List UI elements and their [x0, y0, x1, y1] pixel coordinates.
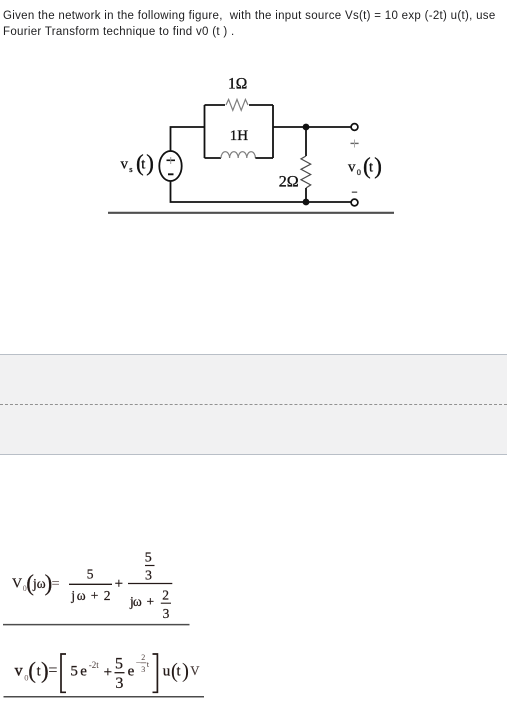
- formula 1: V0(jw) = 5/(jw+2) + (5/3)/(jw+2/3): [12, 551, 172, 621]
- left bracket: [61, 654, 66, 692]
- svg-text:3: 3: [141, 665, 145, 674]
- output terminal bottom: [351, 199, 358, 206]
- source plus sign: [167, 159, 176, 161]
- svg-text:V: V: [12, 577, 22, 592]
- question text: [3, 9, 503, 40]
- svg-text:5: 5: [115, 656, 123, 673]
- svg-text:t: t: [177, 664, 181, 680]
- inductor L1 1H coil: [221, 152, 255, 158]
- svg-text:+: +: [115, 576, 123, 592]
- source minus sign: [168, 173, 174, 175]
- right bracket: [153, 654, 158, 692]
- wire: 2ohm resistor top lead: [305, 127, 307, 156]
- label vs(t): [121, 151, 154, 176]
- svg-text:V: V: [190, 664, 199, 678]
- wire: box bottom branch left segment: [205, 157, 222, 159]
- svg-text:v: v: [15, 663, 23, 680]
- svg-text:ω: ω: [77, 588, 86, 603]
- svg-text:3: 3: [115, 675, 123, 692]
- wire: main line right to output terminal: [273, 126, 351, 128]
- label v0(t): [348, 154, 382, 179]
- svg-text:5: 5: [70, 664, 78, 680]
- svg-text:t: t: [147, 659, 150, 669]
- figure underline: [108, 212, 394, 214]
- svg-text:3: 3: [163, 606, 170, 621]
- svg-text:-2t: -2t: [89, 660, 99, 670]
- underline 2: [4, 696, 205, 698]
- voltage source Vs circle: [159, 151, 181, 181]
- wire: main top line from source to parallel box: [171, 127, 205, 151]
- svg-text:e: e: [80, 664, 87, 680]
- svg-text:ω: ω: [133, 594, 142, 609]
- circuit figure: [0, 0, 507, 230]
- wire: 2ohm resistor bottom lead: [305, 188, 307, 202]
- svg-text:−: −: [136, 658, 141, 668]
- svg-text:5: 5: [145, 551, 152, 566]
- output terminal top: [351, 124, 358, 131]
- wire: parallel box left vertical: [204, 105, 206, 158]
- svg-text:(: (: [28, 658, 36, 683]
- node A junction dot top: [303, 124, 310, 131]
- svg-text:=: =: [48, 661, 57, 680]
- svg-text:+: +: [91, 588, 99, 603]
- svg-text:u: u: [163, 664, 171, 680]
- svg-text:j: j: [70, 588, 75, 603]
- gray separator band: [0, 354, 507, 455]
- svg-text:2: 2: [162, 587, 169, 602]
- wire: bottom return line: [171, 181, 351, 202]
- svg-text:e: e: [128, 664, 135, 680]
- svg-text:): ): [182, 659, 189, 683]
- resistor R1 1ohm zigzag: [226, 99, 248, 110]
- node B junction dot bottom: [303, 199, 310, 206]
- svg-text:5: 5: [87, 567, 94, 582]
- svg-text:3: 3: [145, 569, 152, 584]
- wire: parallel box right vertical: [272, 105, 274, 158]
- svg-text:=: =: [52, 576, 60, 592]
- label minus at output: [352, 191, 357, 193]
- label plus at output: [351, 142, 359, 144]
- formula 2: v0(t) = [5e^-2t + 5/3 e^-(2/3)t] u(t) V: [15, 653, 200, 692]
- wire: box top branch right segment: [249, 104, 273, 106]
- wire: box bottom branch right segment: [255, 157, 273, 159]
- svg-text:+: +: [104, 665, 112, 681]
- svg-text:2: 2: [104, 588, 111, 603]
- underline 1: [3, 624, 190, 626]
- wire: box top branch left segment: [205, 104, 226, 106]
- svg-text:2: 2: [141, 653, 145, 662]
- svg-text:+: +: [147, 594, 155, 609]
- resistor R2 2ohm zigzag: [301, 156, 311, 188]
